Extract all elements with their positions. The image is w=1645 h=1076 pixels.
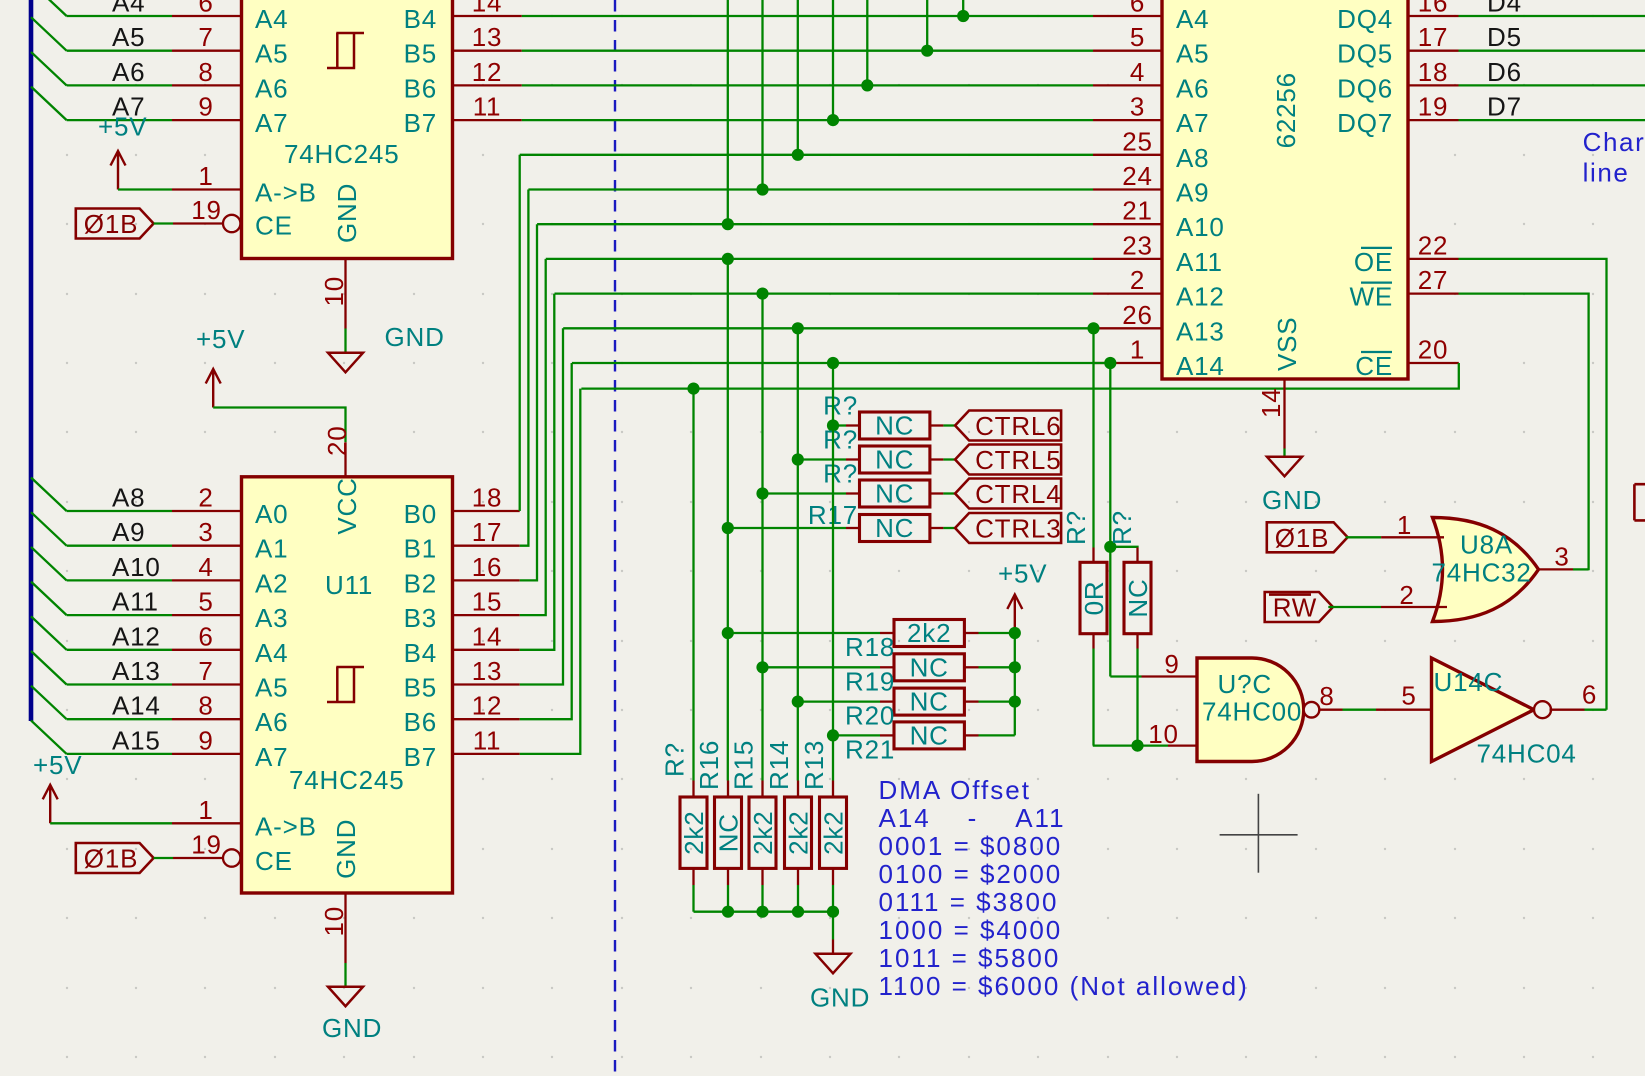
svg-text:A6: A6 (1176, 73, 1209, 103)
svg-text:R19: R19 (845, 666, 895, 696)
svg-text:19: 19 (1418, 92, 1449, 122)
svg-text:7: 7 (198, 22, 213, 52)
svg-text:NC: NC (910, 687, 949, 717)
svg-text:16: 16 (472, 552, 503, 582)
svg-text:A7: A7 (255, 108, 288, 138)
svg-text:9: 9 (198, 725, 213, 755)
62256 pin 1 A14 stub (1093, 362, 1162, 364)
svg-text:12: 12 (472, 691, 503, 721)
svg-text:R13: R13 (799, 740, 829, 790)
schmitt trigger symbol U11 (327, 667, 364, 702)
svg-text:1: 1 (1397, 510, 1412, 540)
62256 pin 4 A6 stub (1093, 84, 1162, 86)
U11 pin 16 B2 stub (453, 579, 520, 581)
svg-text:11: 11 (473, 725, 502, 755)
wire net A10 row (537, 223, 1093, 225)
svg-text:DQ7: DQ7 (1337, 108, 1393, 138)
svg-text:1: 1 (198, 161, 213, 191)
svg-text:A6: A6 (112, 57, 145, 87)
svg-text:A5: A5 (255, 39, 288, 69)
junction dots on A11..A14 rows (722, 253, 734, 265)
svg-text:U14C: U14C (1434, 667, 1504, 697)
svg-text:18: 18 (472, 483, 503, 513)
OR pin 2 wire (1328, 606, 1381, 608)
svg-text:+5V: +5V (33, 750, 82, 780)
hierarchical label CTRL5 (943, 458, 955, 460)
U11 GND pin 10 + ground symbol (344, 893, 346, 963)
svg-text:R?: R? (1107, 510, 1137, 545)
svg-text:NC: NC (1123, 578, 1153, 617)
OR pin 1 wire (1346, 536, 1381, 538)
svg-text:A5: A5 (255, 673, 288, 703)
wire net A12 vertical (DMA offset) (761, 294, 763, 781)
svg-text:DMA Offset: DMA Offset (879, 775, 1031, 805)
resistor R19 NC (pull-up) (763, 666, 881, 668)
svg-text:A->B: A->B (255, 811, 317, 841)
svg-text:D5: D5 (1487, 22, 1522, 52)
hierarchical label RW (OR input 2) (1265, 592, 1333, 622)
U11 pin 11 B7 stub (453, 753, 520, 755)
svg-text:A->B: A->B (255, 178, 317, 208)
wire B4 elbow up to row (net A12) (520, 294, 555, 650)
svg-text:CTRL3: CTRL3 (975, 514, 1061, 544)
svg-text:B6: B6 (404, 707, 437, 737)
svg-text:Ø1B: Ø1B (84, 209, 138, 239)
svg-text:R20: R20 (845, 701, 895, 731)
U11 pin 15 B3 stub (453, 614, 520, 616)
U11 pin 13 B5 stub (453, 683, 520, 685)
bus (address bus, left edge) (29, 0, 34, 721)
svg-text:CTRL6: CTRL6 (975, 411, 1061, 441)
svg-text:A4: A4 (112, 0, 145, 18)
svg-text:8: 8 (1319, 681, 1334, 711)
svg-text:A15: A15 (112, 725, 161, 755)
62256 pin 23 A11 stub (1093, 258, 1162, 260)
svg-text:GND: GND (810, 983, 870, 1013)
wire CE loop down to pulldown row (581, 363, 1458, 389)
svg-text:74HC00: 74HC00 (1202, 697, 1302, 727)
bus entry + wire A14 (U11 pin 8) (31, 686, 67, 720)
svg-text:NC: NC (910, 720, 949, 750)
bus entry + wire A6 (top chip pin 8) (31, 52, 67, 86)
svg-text:B3: B3 (404, 603, 437, 633)
svg-text:9: 9 (1164, 649, 1179, 679)
62256 pin 2 A12 stub (1093, 292, 1162, 294)
wire net A11 vertical (DMA offset) (727, 259, 729, 781)
svg-text:0001 = $0800: 0001 = $0800 (879, 831, 1063, 861)
svg-text:6: 6 (1130, 0, 1145, 18)
svg-text:14: 14 (472, 621, 503, 651)
svg-text:R18: R18 (845, 632, 895, 662)
svg-text:A0: A0 (255, 499, 288, 529)
svg-text:B7: B7 (404, 108, 437, 138)
svg-text:10: 10 (319, 906, 349, 937)
resistor R14 2k2 (pulldown) (797, 781, 799, 798)
svg-text:A1: A1 (255, 534, 288, 564)
resistor R? NC (series to CTRL6) (833, 424, 846, 426)
svg-text:2: 2 (198, 483, 213, 513)
top chip pin 14 B4 stub (453, 15, 522, 17)
svg-text:GND: GND (322, 1013, 382, 1043)
svg-text:0100 = $2000: 0100 = $2000 (879, 859, 1063, 889)
resistor R20 NC (pull-up) (798, 700, 880, 702)
svg-text:B4: B4 (404, 638, 437, 668)
power +5V (to U11 VCC) (206, 369, 221, 408)
inverter U14C 74HC04 body (1432, 658, 1535, 762)
wire net A11 row (546, 258, 1093, 260)
svg-text:U8A: U8A (1460, 530, 1513, 560)
dashed divider line (614, 0, 616, 1076)
power +5V (pull-ups) (1007, 595, 1022, 634)
svg-text:10: 10 (1148, 719, 1179, 749)
pin 1 A->B (top chip) with +5V (111, 151, 126, 190)
svg-text:A5: A5 (1176, 39, 1209, 69)
resistor R21 NC (pull-up) (833, 734, 880, 736)
svg-text:B6: B6 (404, 73, 437, 103)
62256 pin 22 OE-bar (1408, 258, 1459, 260)
svg-text:A14 - A11: A14 - A11 (879, 803, 1066, 833)
resistor R? 2k2 (pulldown) (692, 781, 694, 798)
junction CE pulldown (687, 383, 699, 395)
pin 1 A->B (U11) with +5V (43, 785, 58, 824)
svg-text:10: 10 (319, 276, 349, 307)
OR gate U8A 74HC32 body (1433, 518, 1539, 622)
resistor R16 NC (pulldown) (727, 781, 729, 798)
svg-text:CE: CE (1355, 351, 1393, 381)
svg-text:1011 = $5800: 1011 = $5800 (879, 943, 1061, 973)
svg-text:3: 3 (198, 517, 213, 547)
svg-text:A11: A11 (112, 587, 159, 617)
svg-text:B5: B5 (404, 39, 437, 69)
wire net A13 row (563, 327, 1093, 329)
IC 62256 SRAM body (1162, 0, 1408, 379)
resistor R? NC (series to CTRL5) (798, 458, 846, 460)
svg-text:12: 12 (472, 57, 503, 87)
bus entry + wire A15 (U11 pin 9) (31, 720, 67, 754)
svg-text:CE: CE (255, 211, 293, 241)
svg-text:R?: R? (823, 391, 858, 421)
wire net A4 row (74HC245.B4 to 62256.A4) (522, 15, 1093, 17)
wire B0 elbow up to row (net A8) (519, 155, 521, 511)
svg-text:D6: D6 (1487, 57, 1522, 87)
svg-text:7: 7 (198, 656, 213, 686)
62256 pin 21 A10 stub (1093, 223, 1162, 225)
top chip pin 12 B6 stub (453, 84, 522, 86)
svg-text:A10: A10 (1176, 212, 1225, 242)
svg-text:4: 4 (1130, 57, 1145, 87)
wire B5 elbow up to row (net A13) (520, 328, 563, 684)
svg-text:B5: B5 (404, 673, 437, 703)
62256 pin 19 DQ7 + wire D7 (1408, 119, 1459, 121)
resistor R17 NC (series to CTRL3) (728, 527, 846, 529)
resistor R15 2k2 (pulldown) (761, 781, 763, 798)
inverter pin 6 output wire (1550, 709, 1585, 711)
svg-text:A12: A12 (1176, 282, 1225, 312)
62256 pin 20 CE-bar (1408, 362, 1459, 364)
svg-text:NC: NC (875, 513, 914, 543)
svg-text:D4: D4 (1487, 0, 1522, 18)
svg-text:2: 2 (1399, 580, 1414, 610)
resistor R? 0R (A13 to NAND) (1092, 328, 1094, 547)
wire B1 elbow up to row (net A9) (520, 190, 529, 546)
hierarchical label O1B (OR input 1) (1267, 522, 1348, 552)
svg-text:R14: R14 (764, 740, 794, 790)
partial hierarchical label at right edge (1634, 484, 1645, 520)
top chip pin 13 B5 stub (453, 50, 522, 52)
bus entry + wire A4 (top chip pin 6) (31, 0, 67, 16)
svg-text:74HC32: 74HC32 (1432, 558, 1532, 588)
svg-text:R21: R21 (845, 734, 895, 764)
svg-text:3: 3 (1130, 92, 1145, 122)
62256 pin 3 A7 stub (1093, 119, 1162, 121)
svg-text:U11: U11 (325, 570, 373, 600)
svg-text:A14: A14 (1176, 351, 1225, 381)
svg-text:U?C: U?C (1218, 669, 1272, 699)
bus entry + wire A7 (top chip pin 9) (31, 87, 67, 121)
bus entry + wire A8 (U11 pin 2) (31, 478, 67, 512)
svg-text:5: 5 (198, 587, 213, 617)
svg-text:R?: R? (1061, 510, 1091, 545)
wire WE to OR gate output (1459, 294, 1589, 571)
bus entry + wire A11 (U11 pin 5) (31, 582, 67, 616)
svg-text:A12: A12 (112, 621, 161, 651)
svg-text:B1: B1 (404, 534, 437, 564)
svg-text:R?: R? (823, 425, 858, 455)
svg-text:B4: B4 (404, 4, 437, 34)
svg-text:2k2: 2k2 (819, 811, 849, 855)
svg-text:A13: A13 (1176, 316, 1225, 346)
NAND pin 8 output wire to inverter pin 5 (1319, 709, 1343, 711)
svg-text:14: 14 (1256, 387, 1286, 418)
svg-text:A6: A6 (255, 707, 288, 737)
svg-text:CTRL4: CTRL4 (975, 479, 1061, 509)
svg-text:26: 26 (1122, 300, 1153, 330)
wire net A9 row (528, 188, 1093, 190)
svg-text:18: 18 (1418, 57, 1449, 87)
svg-text:5: 5 (1130, 22, 1145, 52)
svg-text:2: 2 (1130, 265, 1145, 295)
hierarchical label CTRL3 (943, 527, 955, 529)
bus entry + wire A5 (top chip pin 7) (31, 17, 67, 51)
svg-text:Character: Character (1583, 127, 1645, 157)
svg-text:GND: GND (332, 183, 362, 243)
svg-text:DQ6: DQ6 (1337, 73, 1393, 103)
svg-text:VSS: VSS (1272, 317, 1302, 371)
svg-text:0R: 0R (1079, 581, 1109, 616)
svg-text:8: 8 (198, 691, 213, 721)
svg-text:A10: A10 (112, 552, 161, 582)
svg-text:A8: A8 (112, 483, 145, 513)
NAND pin 9 wire (1110, 675, 1141, 677)
svg-text:2k2: 2k2 (907, 618, 951, 648)
svg-text:17: 17 (472, 517, 503, 547)
svg-text:A5: A5 (112, 22, 145, 52)
svg-text:GND: GND (1262, 485, 1322, 515)
62256 pin 14 VSS + ground symbol (1283, 379, 1285, 449)
hierarchical label CTRL6 (943, 424, 955, 426)
hierarchical label CTRL4 (943, 492, 955, 494)
svg-text:CTRL5: CTRL5 (975, 445, 1061, 475)
svg-text:Ø1B: Ø1B (1275, 523, 1329, 553)
svg-text:VCC: VCC (332, 477, 362, 534)
resistor R? NC (series to CTRL4) (763, 492, 847, 494)
wire B6 elbow up to row (net A14) (520, 363, 572, 719)
svg-text:A8: A8 (1176, 143, 1209, 173)
svg-text:CE: CE (255, 846, 293, 876)
svg-text:NC: NC (714, 813, 744, 852)
wire OE to inverter output (1459, 259, 1607, 710)
62256 pin 5 A5 stub (1093, 50, 1162, 52)
ground symbol (pulldowns) (832, 940, 834, 954)
svg-text:A6: A6 (255, 73, 288, 103)
wire B3 elbow up to row (net A11) (520, 259, 546, 615)
U11 pin 17 B1 stub (453, 545, 520, 547)
NAND pin 10 wire (1093, 744, 1168, 746)
svg-text:1: 1 (198, 795, 213, 825)
svg-text:GND: GND (385, 322, 445, 352)
wire net A14 row (572, 362, 1110, 364)
wire B7 elbow up to row (net A15) (520, 389, 581, 754)
svg-text:14: 14 (472, 0, 503, 18)
svg-text:1000 = $4000: 1000 = $4000 (879, 915, 1063, 945)
svg-text:A7: A7 (1176, 108, 1209, 138)
schmitt trigger symbol U? (327, 33, 364, 68)
svg-text:6: 6 (1582, 679, 1597, 709)
OR pin 3 output wire (1539, 568, 1574, 570)
svg-text:A4: A4 (1176, 4, 1209, 34)
svg-text:A3: A3 (255, 603, 288, 633)
svg-text:DQ5: DQ5 (1337, 39, 1393, 69)
svg-text:20: 20 (1418, 335, 1449, 365)
wire net A6 row (522, 84, 1093, 86)
svg-text:74HC245: 74HC245 (289, 765, 404, 795)
wire +5V to U11 pin 20 (213, 408, 345, 443)
svg-text:20: 20 (322, 425, 352, 456)
62256 pin 24 A9 stub (1093, 188, 1162, 190)
cursor crosshair (1220, 834, 1298, 836)
svg-text:0111 = $3800: 0111 = $3800 (879, 887, 1059, 917)
svg-text:1100 = $6000 (Not allowed): 1100 = $6000 (Not allowed) (879, 971, 1249, 1001)
62256 pin 25 A8 stub (1093, 154, 1162, 156)
svg-text:19: 19 (191, 830, 222, 860)
62256 pin 6 A4 stub (1093, 15, 1162, 17)
bus entry + wire A9 (U11 pin 3) (31, 512, 67, 546)
svg-text:Ø1B: Ø1B (84, 844, 138, 874)
svg-text:DQ4: DQ4 (1337, 4, 1393, 34)
hierarchical label O1B (top chip CE) (76, 209, 154, 239)
svg-text:2k2: 2k2 (748, 811, 778, 855)
svg-text:GND: GND (331, 819, 361, 879)
svg-text:16: 16 (1418, 0, 1449, 18)
IC U11 74HC245 body (242, 477, 453, 893)
wire pulldown common to GND (694, 912, 834, 940)
top chip pin 11 B7 stub (453, 119, 522, 121)
svg-text:15: 15 (472, 587, 503, 617)
svg-text:5: 5 (1401, 681, 1416, 711)
62256 pin 26 A13 stub (1093, 327, 1162, 329)
wire net A13 vertical (DMA offset) (797, 328, 799, 780)
wire +5V pull-up vertical (1014, 633, 1016, 735)
svg-text:6: 6 (198, 621, 213, 651)
svg-text:4: 4 (198, 552, 213, 582)
svg-text:13: 13 (472, 22, 503, 52)
62256 pin 16 DQ4 + wire D4 (1408, 15, 1459, 17)
IC U? 74HC245 (top octal buffer) body (242, 0, 453, 259)
svg-text:9: 9 (198, 92, 213, 122)
svg-text:NC: NC (910, 652, 949, 682)
svg-text:R?: R? (660, 742, 690, 777)
svg-text:A7: A7 (255, 742, 288, 772)
svg-text:A9: A9 (1176, 178, 1209, 208)
svg-text:NC: NC (875, 445, 914, 475)
svg-text:NC: NC (875, 479, 914, 509)
svg-text:A4: A4 (255, 4, 288, 34)
svg-text:23: 23 (1122, 230, 1153, 260)
resistor R? NC (A14 to NAND) (1109, 363, 1111, 677)
svg-text:62256: 62256 (1271, 72, 1301, 148)
svg-text:17: 17 (1418, 22, 1449, 52)
svg-text:+5V: +5V (998, 559, 1047, 589)
svg-text:A13: A13 (112, 656, 161, 686)
62256 pin 17 DQ5 + wire D5 (1408, 50, 1459, 52)
svg-text:19: 19 (191, 195, 222, 225)
svg-text:21: 21 (1122, 196, 1153, 226)
svg-text:WE: WE (1350, 282, 1393, 312)
wire net A12 row (555, 292, 1094, 294)
svg-text:A14: A14 (112, 691, 161, 721)
svg-text:B0: B0 (404, 499, 437, 529)
svg-text:R15: R15 (729, 740, 759, 790)
svg-text:A11: A11 (1176, 247, 1223, 277)
wire net A15/CE vertical (pulldown) (692, 389, 694, 781)
svg-text:2k2: 2k2 (679, 811, 709, 855)
svg-text:24: 24 (1122, 161, 1153, 191)
svg-text:13: 13 (472, 656, 503, 686)
bus entry + wire A13 (U11 pin 7) (31, 651, 67, 685)
wire B2 elbow up to row (net A10) (520, 224, 537, 580)
svg-text:25: 25 (1122, 126, 1153, 156)
U11 pin 12 B6 stub (453, 718, 520, 720)
svg-text:B7: B7 (404, 742, 437, 772)
svg-text:74HC245: 74HC245 (284, 139, 399, 169)
svg-text:NC: NC (875, 411, 914, 441)
wire net A5 row (522, 50, 1093, 52)
bus entry + wire A12 (U11 pin 6) (31, 616, 67, 650)
svg-text:OE: OE (1354, 247, 1393, 277)
hierarchical label O1B (U11 CE) (76, 843, 154, 873)
svg-text:R?: R? (823, 459, 858, 489)
resistor R13 2k2 (pulldown) (832, 781, 834, 798)
resistor R18 2k2 (pull-up) (728, 632, 880, 634)
svg-text:D7: D7 (1487, 92, 1522, 122)
U11 pin 18 B0 stub (453, 510, 520, 512)
wire net A7 row (522, 119, 1093, 121)
svg-text:22: 22 (1418, 230, 1449, 260)
svg-text:3: 3 (1554, 542, 1569, 572)
svg-text:RW: RW (1273, 593, 1317, 623)
svg-text:A4: A4 (255, 638, 288, 668)
svg-text:11: 11 (473, 92, 502, 122)
svg-text:8: 8 (198, 57, 213, 87)
wire net A14 vertical (DMA offset) (832, 363, 834, 781)
svg-text:1: 1 (1130, 335, 1145, 365)
wire net A8 row (520, 154, 1093, 156)
svg-text:line: line (1583, 158, 1630, 188)
top chip GND pin 10 + ground symbol (344, 259, 346, 329)
svg-text:R16: R16 (694, 740, 724, 790)
bus entry + wire A10 (U11 pin 4) (31, 547, 67, 581)
62256 pin 27 WE-bar (1408, 292, 1459, 294)
